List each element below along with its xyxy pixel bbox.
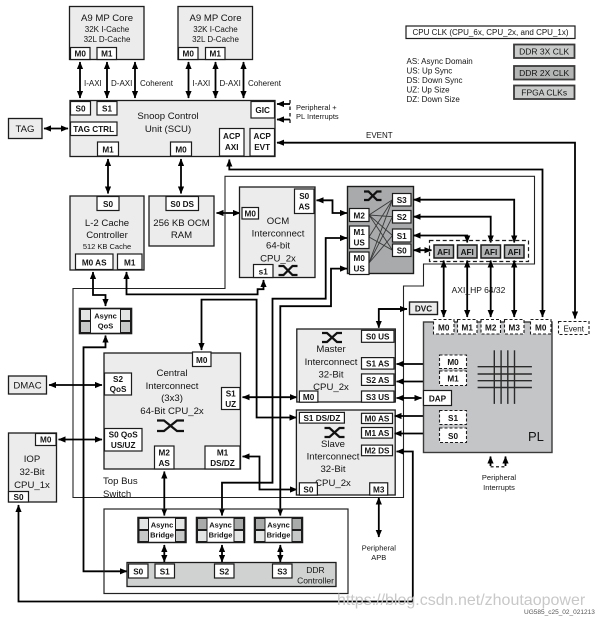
svg-text:Controller: Controller — [86, 230, 128, 241]
svg-text:32K I-Cache: 32K I-Cache — [193, 25, 238, 34]
svg-text:S0: S0 — [103, 200, 113, 209]
port M0 AS of slave — [362, 413, 393, 423]
svg-text:AS: AS — [299, 203, 311, 212]
boundary top bus switch region — [73, 176, 535, 497]
svg-text:64-Bit CPU_2x: 64-Bit CPU_2x — [140, 406, 204, 417]
svg-text:Peripheral +: Peripheral + — [296, 103, 337, 112]
block Central Interconnect — [104, 353, 241, 469]
legend DDR 3X CLK box — [514, 45, 575, 59]
svg-text:ACP: ACP — [254, 132, 272, 141]
svg-text:Interconnect: Interconnect — [307, 452, 360, 463]
svg-text:S2: S2 — [397, 213, 407, 222]
port S0 of L2 — [97, 197, 119, 211]
wire DMAC to central S2 QoS — [49, 384, 102, 386]
port S2 of DDR — [215, 564, 235, 578]
wire TAG to TAG CTRL — [44, 128, 68, 130]
svg-text:M0: M0 — [40, 436, 52, 445]
svg-text:A9 MP Core: A9 MP Core — [189, 13, 241, 24]
svg-text:US: US — [354, 239, 366, 248]
block AFI 4 — [505, 245, 525, 258]
port S0 of DDR — [129, 564, 149, 578]
wire I-AXI core2 — [189, 62, 211, 98]
svg-text:Unit (SCU): Unit (SCU) — [145, 124, 191, 135]
svg-text:DAP: DAP — [429, 395, 447, 404]
svg-text:256 KB OCM: 256 KB OCM — [153, 218, 210, 229]
svg-text:M0: M0 — [535, 324, 547, 333]
wire mux S0 to AFI1 — [414, 249, 432, 251]
svg-text:Slave: Slave — [321, 439, 345, 450]
wire async bridge 2 to DDR S2 — [221, 545, 223, 562]
svg-text:Bridge: Bridge — [267, 531, 291, 540]
crossbar glyph OCM interconnect — [279, 266, 298, 275]
svg-text:S1: S1 — [226, 390, 236, 399]
svg-text:AFI: AFI — [461, 248, 474, 257]
peripheral interrupts into PL bottom — [482, 457, 517, 493]
wire mux S1 to AFI2 — [414, 236, 468, 243]
svg-text:S3 US: S3 US — [366, 393, 390, 402]
svg-text:S0 DS: S0 DS — [170, 200, 194, 209]
port M2 of mux — [350, 209, 370, 222]
svg-text:S1: S1 — [102, 105, 112, 114]
svg-text:M1: M1 — [354, 228, 366, 237]
svg-text:Bridge: Bridge — [209, 531, 233, 540]
port M1 US of mux — [350, 226, 370, 249]
svg-text:CPU_1x: CPU_1x — [14, 480, 50, 491]
block memory mux dark — [348, 187, 414, 274]
svg-text:M0 AS: M0 AS — [82, 259, 107, 268]
wire master S2 AS to PL M1 — [397, 381, 438, 383]
svg-text:M0: M0 — [438, 324, 450, 333]
svg-text:S2 AS: S2 AS — [366, 376, 390, 385]
svg-text:M1: M1 — [217, 449, 229, 458]
svg-text:FPGA CLKs: FPGA CLKs — [521, 88, 567, 98]
svg-text:S0: S0 — [75, 105, 85, 114]
wire OCM RAM to OCM interconnect M0 — [217, 212, 241, 214]
wire slave M2 DS to IOP S0 — [19, 452, 413, 602]
wire DVC feed and master S0 US feed — [379, 309, 407, 328]
port M1 of SCU — [98, 142, 119, 156]
svg-text:S0: S0 — [303, 485, 313, 494]
crossbar glyph slave — [325, 428, 345, 437]
svg-text:Bridge: Bridge — [150, 531, 174, 540]
svg-text:DMAC: DMAC — [13, 381, 41, 392]
port M0 left of PL — [440, 355, 467, 369]
svg-text:512 KB Cache: 512 KB Cache — [83, 242, 131, 251]
svg-text:S3: S3 — [397, 196, 407, 205]
svg-text:QoS: QoS — [98, 322, 113, 331]
block Slave Interconnect — [296, 410, 395, 495]
svg-text:S1 DS/DZ: S1 DS/DZ — [303, 414, 340, 423]
wire slave M1 AS to PL S0 — [395, 433, 438, 435]
svg-text:DS/DZ: DS/DZ — [210, 459, 235, 468]
svg-text:A9 MP Core: A9 MP Core — [81, 13, 133, 24]
block OCM Interconnect — [240, 187, 316, 278]
port S0 of SCU — [71, 102, 91, 116]
svg-text:S0 QoS: S0 QoS — [109, 431, 139, 440]
svg-text:CPU_2x: CPU_2x — [313, 382, 349, 393]
svg-text:Top Bus: Top Bus — [103, 476, 138, 487]
svg-text:M0: M0 — [183, 50, 195, 59]
svg-text:M0: M0 — [354, 254, 366, 263]
block A9 MP Core 1 — [70, 7, 145, 60]
wire central M1 DS/DZ to slave S0 — [243, 457, 298, 490]
svg-text:Interrupts: Interrupts — [483, 483, 515, 492]
wire AFI2 to PL M1 — [466, 261, 468, 318]
block DDR Controller — [127, 563, 336, 587]
port s1 of OCM interconnect — [254, 265, 274, 278]
svg-text:Interconnect: Interconnect — [146, 381, 199, 392]
svg-text:US: Up Sync: US: Up Sync — [407, 67, 453, 76]
port M1 DS/DZ of central — [205, 446, 240, 469]
port Event dashed — [559, 322, 590, 335]
legend DDR 2X CLK box — [514, 66, 575, 80]
port M0 AS of L2 — [76, 254, 114, 270]
wire master S3 US to DAP — [397, 397, 422, 399]
port M0b top of PL — [531, 320, 552, 335]
port ACP EVT of SCU — [250, 129, 275, 157]
svg-text:M1: M1 — [102, 146, 114, 155]
svg-text:DDR 3X CLK: DDR 3X CLK — [519, 47, 569, 57]
port ACP AXI of SCU — [220, 129, 245, 157]
svg-text:Async: Async — [209, 521, 232, 530]
port M0 of IOP — [36, 434, 57, 446]
svg-text:APB: APB — [371, 553, 386, 562]
port M1 AS of slave — [362, 428, 393, 439]
wire mux M1 US staircase to async bridge 2 — [222, 238, 347, 516]
label Top Bus Switch — [103, 476, 138, 500]
svg-text:EVENT: EVENT — [366, 131, 393, 140]
label AXI_HP — [452, 285, 506, 295]
wire I-AXI core1 — [80, 62, 102, 98]
block Async Bridge 1 — [138, 518, 186, 543]
port S0 of mux — [393, 244, 412, 257]
svg-text:S1 AS: S1 AS — [366, 360, 390, 369]
svg-text:M1 AS: M1 AS — [365, 429, 390, 438]
svg-text:AS: AS — [159, 459, 171, 468]
svg-text:(3x3): (3x3) — [161, 393, 183, 404]
svg-text:Master: Master — [316, 344, 346, 355]
wire OCM S0 AS to mux M2 — [317, 200, 348, 213]
port S0 left of PL — [440, 428, 467, 443]
svg-text:S2: S2 — [219, 568, 229, 577]
svg-text:M1: M1 — [124, 259, 136, 268]
svg-text:Async: Async — [267, 521, 290, 530]
port S2 AS of master — [362, 374, 395, 386]
port S3 US of master — [362, 391, 395, 402]
port S0 US of master — [362, 330, 395, 342]
svg-text:DVC: DVC — [415, 305, 432, 314]
wire Async QoS to DDR S0 — [84, 336, 128, 572]
crossbar glyph mux — [364, 192, 382, 201]
svg-text:Switch: Switch — [103, 489, 131, 500]
svg-text:UZ: Up Size: UZ: Up Size — [407, 86, 451, 95]
svg-text:S2: S2 — [113, 375, 123, 384]
figure number — [524, 609, 595, 616]
svg-text:M3: M3 — [509, 324, 521, 333]
svg-text:M2: M2 — [159, 449, 171, 458]
wire SCU M1 to L2 S0 — [107, 159, 109, 194]
svg-text:OCM: OCM — [267, 216, 289, 227]
svg-text:UZ: UZ — [225, 400, 236, 409]
block DVC — [410, 302, 438, 315]
port M1 of A9 core 2 — [206, 48, 226, 60]
port M3 of slave — [370, 483, 388, 495]
port M0 of A9 core 2 — [179, 48, 199, 60]
DDR container box — [104, 509, 348, 594]
block 256 KB OCM RAM — [149, 196, 214, 246]
wire GIC interrupt lower — [277, 119, 290, 121]
block Master Interconnect — [297, 329, 396, 402]
svg-text:DZ: Down Size: DZ: Down Size — [407, 95, 461, 104]
block Async Bridge 3 — [255, 518, 303, 543]
block A9 MP Core 2 — [178, 7, 253, 60]
port M0 of OCM interconnect — [242, 208, 259, 220]
wire mux S3 to AFI4 — [414, 200, 515, 243]
port S0 AS of OCM interconnect — [295, 189, 315, 214]
svg-text:S3: S3 — [277, 568, 287, 577]
block TAG — [9, 119, 43, 139]
svg-text:AXI: AXI — [225, 143, 239, 152]
svg-text:TAG CTRL: TAG CTRL — [73, 125, 114, 134]
port M0 top of PL — [434, 320, 455, 335]
port M1 of A9 core 1 — [97, 48, 117, 60]
port S0 DS of OCM RAM — [166, 197, 199, 211]
block L2 Cache Controller — [70, 196, 144, 270]
port S2 of mux — [393, 211, 412, 224]
wire ACP AXI to PL M0 right — [229, 160, 542, 318]
svg-text:UG585_c25_02_021213: UG585_c25_02_021213 — [524, 609, 595, 616]
port S0 of slave — [299, 483, 317, 495]
wire async bridge 3 to DDR S3 — [279, 545, 281, 562]
wire D-AXI core2 — [216, 62, 241, 98]
block Async Bridge 2 — [197, 518, 245, 543]
port M0 of central — [193, 352, 212, 367]
svg-text:32-Bit: 32-Bit — [320, 464, 345, 475]
legend abbreviations — [407, 57, 473, 104]
wire central M2 AS to async bridge 1 — [163, 472, 165, 516]
wire D-AXI core1 — [107, 62, 132, 98]
wire GIC interrupt upper — [277, 103, 290, 105]
port M1 left of PL — [440, 371, 467, 386]
svg-text:M0: M0 — [303, 393, 315, 402]
port M0 of master — [299, 391, 318, 402]
svg-text:S0: S0 — [448, 432, 458, 441]
wire L2 M1 to OCM s1 — [127, 272, 264, 294]
port TAG CTRL of SCU — [71, 122, 118, 136]
block DMAC — [9, 376, 47, 394]
svg-text:AFI: AFI — [437, 248, 450, 257]
block AFI 2 — [458, 245, 478, 258]
PL fabric grid — [478, 350, 532, 404]
svg-text:Central: Central — [157, 368, 188, 379]
port M0 US of mux — [350, 252, 370, 275]
wire mux S2 to AFI3 — [414, 217, 491, 243]
svg-text:M1: M1 — [210, 50, 222, 59]
port S0 QoS US/UZ of central — [105, 429, 143, 452]
wire Coherent core1 — [135, 62, 174, 98]
svg-text:Interconnect: Interconnect — [305, 357, 358, 368]
block Async QoS — [80, 309, 132, 334]
port S1 of DDR — [155, 564, 175, 578]
legend FPGA CLKs box — [514, 86, 575, 100]
svg-text:M1: M1 — [447, 375, 459, 384]
port M0 of SCU — [171, 142, 192, 156]
crossbar glyph central — [157, 421, 184, 432]
svg-text:https://blog.csdn.net/zhoutaop: https://blog.csdn.net/zhoutaopower — [337, 592, 586, 609]
svg-text:CPU_2x: CPU_2x — [315, 478, 351, 489]
wire slave M3 peripheral APB — [362, 498, 397, 563]
svg-text:32-Bit: 32-Bit — [318, 370, 343, 381]
svg-text:US/UZ: US/UZ — [111, 441, 136, 450]
svg-text:Event: Event — [563, 325, 584, 334]
svg-text:M3: M3 — [373, 485, 385, 494]
svg-text:32K I-Cache: 32K I-Cache — [85, 25, 130, 34]
port S3 of DDR — [273, 564, 293, 578]
svg-text:AFI: AFI — [508, 248, 521, 257]
svg-text:DS: Down Sync: DS: Down Sync — [407, 76, 463, 85]
crossbar glyph master — [322, 333, 342, 342]
svg-text:AXI_HP 64/32: AXI_HP 64/32 — [452, 285, 506, 295]
svg-text:s1: s1 — [259, 268, 269, 277]
svg-text:D-AXI: D-AXI — [111, 79, 132, 88]
svg-text:AFI: AFI — [484, 248, 497, 257]
port M3 top of PL — [505, 320, 525, 335]
svg-text:TAG: TAG — [15, 124, 34, 135]
svg-text:EVT: EVT — [254, 143, 270, 152]
block Snoop Control Unit SCU — [70, 101, 275, 157]
port GIC of SCU — [251, 102, 275, 119]
svg-text:D-AXI: D-AXI — [220, 79, 241, 88]
block PL — [424, 322, 553, 453]
port M1 of L2 — [118, 254, 143, 270]
mux internal crossing lines — [369, 200, 393, 263]
svg-text:Async: Async — [151, 521, 174, 530]
wire slave M0 AS to PL S1 — [395, 415, 438, 417]
svg-text:32-Bit: 32-Bit — [19, 467, 44, 478]
block AFI 3 — [481, 245, 501, 258]
svg-text:32L D-Cache: 32L D-Cache — [84, 35, 131, 44]
svg-text:M1: M1 — [462, 324, 474, 333]
svg-text:I-AXI: I-AXI — [84, 79, 102, 88]
port M2 AS of central — [155, 446, 175, 469]
svg-text:AS: Async Domain: AS: Async Domain — [407, 57, 473, 66]
port S1 of SCU — [97, 102, 117, 116]
wire async bridge 1 to DDR S1 — [163, 545, 165, 562]
wire SCU M0 to OCM RAM S0 DS — [180, 159, 182, 194]
svg-text:QoS: QoS — [110, 385, 127, 394]
port DAP of PL — [424, 391, 452, 406]
wire Coherent core2 — [244, 62, 282, 98]
svg-text:GIC: GIC — [255, 106, 270, 115]
svg-text:PL Interrupts: PL Interrupts — [296, 112, 339, 121]
svg-text:DDR 2X CLK: DDR 2X CLK — [519, 68, 569, 78]
port S0 of IOP — [9, 492, 29, 503]
svg-text:Async: Async — [94, 312, 117, 321]
port M2 top of PL — [481, 320, 501, 335]
wire L2 M0 AS to Async QoS — [93, 272, 106, 306]
svg-text:M2 DS: M2 DS — [364, 447, 390, 456]
svg-text:DDR: DDR — [306, 565, 324, 575]
svg-text:M0: M0 — [196, 356, 208, 365]
svg-text:S0 US: S0 US — [366, 333, 390, 342]
svg-text:S1: S1 — [397, 232, 407, 241]
wire AFI3 to PL M2 — [490, 261, 492, 318]
svg-text:RAM: RAM — [171, 230, 192, 241]
svg-text:Coherent: Coherent — [140, 79, 174, 88]
legend CPU CLK box — [406, 26, 575, 39]
svg-text:CPU_2x: CPU_2x — [260, 254, 296, 265]
svg-text:S1: S1 — [448, 414, 458, 423]
port S1 of mux — [393, 229, 412, 242]
svg-text:M1: M1 — [101, 50, 113, 59]
svg-text:Interconnect: Interconnect — [252, 229, 305, 240]
svg-text:M0 AS: M0 AS — [365, 415, 390, 424]
svg-text:M0: M0 — [75, 50, 87, 59]
block IOP — [9, 433, 57, 502]
svg-text:S0: S0 — [397, 247, 407, 256]
svg-text:US: US — [354, 265, 366, 274]
svg-text:M0: M0 — [245, 210, 257, 219]
port S1 AS of master — [362, 358, 395, 370]
svg-text:Coherent: Coherent — [248, 79, 282, 88]
wire EVENT from Event box to ACP EVT — [277, 131, 575, 319]
svg-text:S1: S1 — [160, 568, 170, 577]
svg-text:Peripheral: Peripheral — [482, 473, 517, 482]
svg-text:ACP: ACP — [223, 132, 241, 141]
svg-text:CPU CLK (CPU_6x, CPU_2x, and C: CPU CLK (CPU_6x, CPU_2x, and CPU_1x) — [412, 28, 568, 37]
port S1 left of PL — [440, 411, 467, 425]
svg-text:S0: S0 — [133, 568, 143, 577]
svg-text:Snoop Control: Snoop Control — [137, 111, 198, 122]
port M0 of A9 core 1 — [71, 48, 91, 60]
svg-text:S0: S0 — [299, 192, 309, 201]
svg-text:L-2 Cache: L-2 Cache — [85, 218, 129, 229]
svg-text:I-AXI: I-AXI — [193, 79, 211, 88]
svg-text:M0: M0 — [175, 146, 187, 155]
port S3 of mux — [393, 194, 412, 207]
wire central M0 to slave S1 DS/DZ — [202, 300, 297, 418]
svg-text:M2: M2 — [354, 212, 366, 221]
port S1 UZ of central — [222, 388, 241, 410]
bracket peripheral PL interrupts — [290, 100, 339, 123]
svg-text:M2: M2 — [485, 324, 497, 333]
svg-text:IOP: IOP — [24, 454, 41, 465]
svg-text:PL: PL — [528, 429, 544, 444]
AFI dashed container — [430, 241, 529, 262]
svg-text:S0: S0 — [13, 493, 23, 502]
wire mux M0 US staircase to async bridge 3 — [280, 269, 347, 516]
svg-text:32L D-Cache: 32L D-Cache — [192, 35, 239, 44]
wire AFI4 to PL M3 — [513, 261, 515, 318]
port S1 DS/DZ of slave — [299, 412, 344, 423]
watermark — [337, 592, 586, 609]
svg-text:M0: M0 — [447, 358, 459, 367]
svg-text:64-bit: 64-bit — [266, 241, 290, 252]
wire central S1 UZ to master M0 — [243, 396, 298, 398]
port S2 QoS of central — [105, 373, 132, 395]
port M1 top of PL — [458, 320, 478, 335]
block AFI 1 — [434, 245, 454, 258]
wire AFI1 to PL M0 — [443, 261, 445, 318]
svg-text:Controller: Controller — [297, 576, 334, 586]
port M2 DS of slave — [362, 445, 393, 456]
wire IOP M0 to central S0 QoS — [59, 439, 103, 441]
wire master S1 AS to PL M0 — [397, 363, 438, 365]
svg-text:Peripheral: Peripheral — [362, 544, 397, 553]
